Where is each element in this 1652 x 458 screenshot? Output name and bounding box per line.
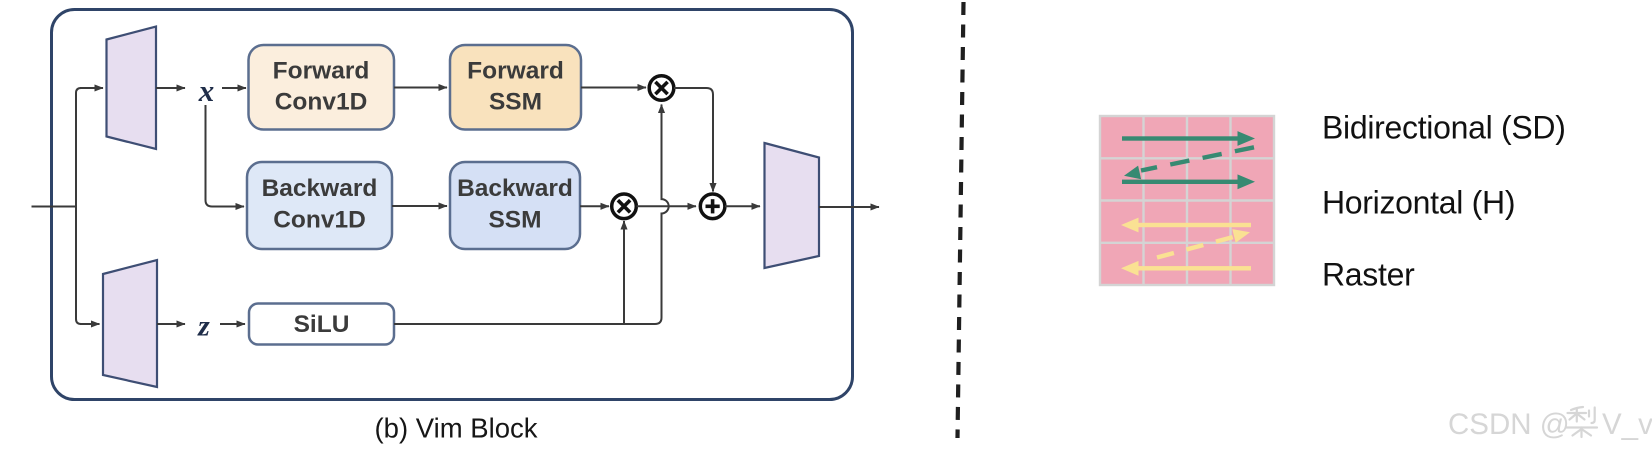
svg-text:SSM: SSM <box>488 207 541 234</box>
trapezoid projection right <box>765 143 820 268</box>
svg-text:Raster: Raster <box>1322 257 1415 293</box>
dashed divider <box>958 2 964 438</box>
wire trunk to upper trapezoid <box>80 87 103 89</box>
svg-text:Conv1D: Conv1D <box>275 89 368 116</box>
wire z to SiLU <box>220 323 245 325</box>
wire trunk vertical <box>76 88 82 324</box>
svg-text:Horizontal (H): Horizontal (H) <box>1322 185 1515 221</box>
wire upper trapezoid to x <box>156 87 185 89</box>
wire Backward Conv1D to Backward SSM <box>392 205 447 207</box>
wire multiply1 to add (over and down) <box>674 88 713 192</box>
trapezoid projection upper-left <box>107 27 157 150</box>
add circled plus <box>700 194 725 219</box>
wire x to Forward Conv1D <box>222 87 246 89</box>
watermark CSDN <box>1448 408 1652 441</box>
svg-text:Backward: Backward <box>262 175 378 202</box>
watermark glyph pear <box>1567 407 1598 437</box>
legend yellow arrow row3 <box>1121 218 1251 233</box>
svg-text:x: x <box>198 73 215 108</box>
svg-text:Forward: Forward <box>467 58 564 85</box>
svg-text:Backward: Backward <box>457 175 573 202</box>
outer Vim block container <box>52 10 853 400</box>
svg-text:SSM: SSM <box>489 89 542 116</box>
wire branch up into multiply2 <box>623 221 625 324</box>
wire output <box>819 206 879 208</box>
svg-text:(b) Vim Block: (b) Vim Block <box>375 413 538 444</box>
wire Forward SSM to multiply1 <box>581 87 646 89</box>
multiply2 circled times <box>612 194 637 219</box>
legend teal arrow row2 <box>1122 174 1255 189</box>
legend yellow dashed return arrow <box>1157 229 1250 257</box>
box Forward Conv1D <box>249 45 395 130</box>
wire trapezoid to z <box>157 323 185 325</box>
wire input stub <box>32 206 78 208</box>
wire trunk to lower trapezoid <box>80 323 100 325</box>
wire multiply2 to add <box>637 205 697 207</box>
svg-text:Forward: Forward <box>273 58 370 85</box>
legend yellow arrow row4 <box>1121 261 1251 276</box>
svg-text:Bidirectional (SD): Bidirectional (SD) <box>1322 110 1566 146</box>
svg-text:CSDN @: CSDN @ <box>1448 408 1570 441</box>
box Backward Conv1D <box>247 162 392 249</box>
svg-text:V_v: V_v <box>1602 408 1652 441</box>
legend teal dashed return arrow <box>1124 147 1254 179</box>
wire add to output trapezoid <box>725 205 760 207</box>
box Backward SSM <box>450 162 580 249</box>
legend pink grid <box>1100 116 1274 285</box>
trapezoid projection lower-left <box>103 260 157 387</box>
wire Forward Conv1D to Forward SSM <box>394 87 447 89</box>
multiply1 circled times <box>649 76 674 101</box>
box Forward SSM <box>450 45 581 130</box>
legend teal arrow row1 <box>1122 131 1255 146</box>
wire vertical up to multiply1 with hop over <box>662 105 669 313</box>
wire SiLU output horizontal <box>394 310 662 324</box>
svg-text:Conv1D: Conv1D <box>273 207 366 234</box>
wire Backward SSM to multiply2 <box>580 205 609 207</box>
box SiLU <box>249 304 394 345</box>
wire x branch down to Backward Conv1D <box>206 105 245 207</box>
svg-text:z: z <box>197 310 210 343</box>
svg-text:SiLU: SiLU <box>294 311 350 338</box>
